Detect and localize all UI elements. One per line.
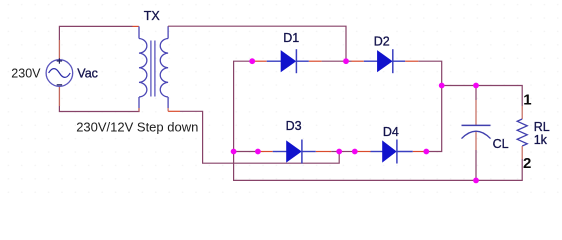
wire D4 cathode stub — [413, 151, 427, 153]
svg-text:Vac: Vac — [77, 67, 98, 81]
svg-text:RL: RL — [534, 120, 550, 134]
svg-text:1: 1 — [523, 91, 531, 108]
junction dot capacitor top — [473, 83, 479, 89]
wire junction to D4 anode — [339, 151, 370, 153]
capacitor CL — [462, 125, 491, 138]
svg-text:CL: CL — [493, 137, 509, 151]
junction dot D4 anode — [352, 149, 358, 155]
wire bottom of primary loop — [59, 106, 139, 112]
svg-text:230V/12V Step down: 230V/12V Step down — [76, 119, 198, 134]
resistor RL — [517, 106, 527, 159]
wire top-left horizontal from source to transformer primary — [59, 26, 138, 40]
wire bottom bus negative rail — [234, 152, 523, 181]
svg-text:D3: D3 — [286, 119, 302, 133]
svg-text:D2: D2 — [374, 34, 390, 48]
svg-text:D1: D1 — [283, 31, 299, 45]
svg-text:TX: TX — [144, 9, 161, 23]
junction dot D3-D4 — [336, 149, 342, 155]
junction dot D3 anode — [255, 149, 261, 155]
wire secondary top to D1-D2 junction — [168, 26, 346, 61]
wire output node top to resistor — [442, 86, 523, 107]
wire secondary bottom to D3-D4 junction — [168, 111, 339, 163]
svg-text:D4: D4 — [383, 125, 399, 139]
ac source V1 230V — [46, 40, 73, 106]
diode D2 — [364, 49, 405, 73]
junction dot D1-D2 — [343, 58, 349, 64]
diode D4 — [371, 140, 413, 164]
transformer TX — [139, 26, 168, 111]
diode D1 — [267, 49, 309, 73]
svg-text:230V: 230V — [11, 67, 41, 81]
junction dot capacitor bottom — [473, 178, 479, 184]
wire D1 anode branch and left vertical — [234, 61, 267, 151]
svg-text:1k: 1k — [534, 133, 548, 147]
wire junction to D2 anode — [346, 60, 364, 62]
junction dot D4 cathode — [423, 149, 429, 155]
junction dot D1 anode — [249, 58, 255, 64]
wire D1 cathode to junction — [309, 60, 346, 62]
wire D3 cathode to junction — [316, 151, 340, 153]
wire D2 cathode down right side to D4 cathode — [405, 61, 442, 151]
wire D3 anode branch — [234, 151, 273, 153]
junction dot output node — [439, 83, 445, 89]
junction dot left vertical at D3 row — [231, 149, 237, 155]
svg-text:2: 2 — [523, 155, 531, 172]
diode D3 — [273, 140, 316, 164]
wire capacitor bottom lead — [475, 131, 477, 180]
wire capacitor top lead — [475, 86, 477, 126]
